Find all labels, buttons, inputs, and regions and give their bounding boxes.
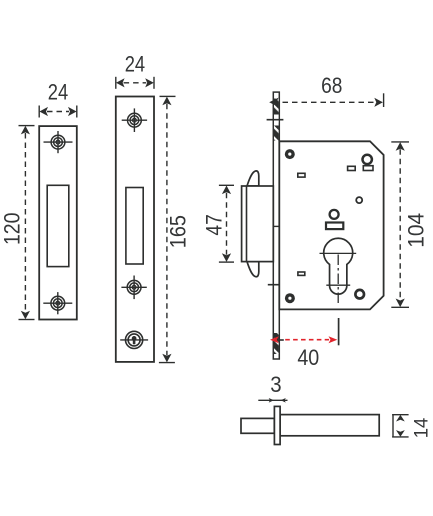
faceplate cylinder hole <box>120 331 148 348</box>
side faceplate <box>274 406 280 444</box>
case center rect <box>326 223 343 230</box>
faceplate slot <box>126 188 143 265</box>
case small circle <box>356 197 362 203</box>
svg-text:104: 104 <box>403 213 428 248</box>
case rect left of ring <box>348 166 356 170</box>
svg-text:68: 68 <box>321 73 342 98</box>
strike plate top screw hole <box>44 131 73 153</box>
case top-left screw <box>285 149 295 159</box>
extension line cylinder center <box>338 318 340 345</box>
strike plate bottom screw hole <box>43 292 72 314</box>
svg-text:47: 47 <box>201 214 226 235</box>
svg-text:3: 3 <box>270 372 281 397</box>
dimension 24 (strike plate width) <box>39 106 77 118</box>
dimension 165 (faceplate height) <box>159 96 176 362</box>
faceplate outline <box>116 97 154 362</box>
latch bolt top ear <box>247 171 259 186</box>
strip small tick <box>273 225 280 227</box>
case rect below ring <box>363 166 373 171</box>
svg-text:24: 24 <box>125 52 145 77</box>
strip hatch gap at screw <box>274 115 279 126</box>
side body <box>280 415 379 436</box>
case small rect bottom-left <box>298 272 305 275</box>
case top-right ring <box>363 155 372 164</box>
strike plate slot <box>47 185 69 266</box>
euro cylinder profile <box>324 238 353 294</box>
cylinder vertical centerline <box>337 255 339 304</box>
cylinder horizontal centerline <box>320 252 357 254</box>
latch bolt front face line <box>246 186 248 262</box>
case center ring <box>330 210 339 219</box>
svg-text:24: 24 <box>48 79 68 104</box>
lock case outline <box>279 141 383 309</box>
svg-text:165: 165 <box>165 215 190 248</box>
latch bolt bottom ear <box>247 262 259 277</box>
dimension 24 (faceplate width) <box>116 77 154 89</box>
strip cylinder tick <box>279 339 284 341</box>
dimension 40 (backset, red) <box>270 336 337 343</box>
case bottom-left screw <box>285 293 295 303</box>
svg-text:40: 40 <box>297 345 319 370</box>
strip screw tick bottom <box>268 284 285 286</box>
case edge tick <box>279 285 285 287</box>
dimension 3 (faceplate thickness) <box>258 398 287 403</box>
dimension 68 (case width) <box>269 93 383 107</box>
lock faceplate strip <box>273 92 279 359</box>
svg-text:14: 14 <box>411 417 432 438</box>
case small rect mid-left <box>298 173 305 177</box>
strip hatch top <box>274 99 279 141</box>
case bottom-right ring <box>355 290 364 299</box>
strike plate outline <box>39 126 77 319</box>
dimension 47 (latch height) <box>219 185 234 262</box>
dimension 14 (body thickness) <box>392 415 409 437</box>
dimension 104 (case height) <box>391 142 409 307</box>
cylinder slot tick <box>326 284 350 286</box>
dimension 120 (strike plate height) <box>19 126 35 320</box>
latch bolt body <box>242 186 274 262</box>
strip hatch bottom <box>274 333 279 354</box>
faceplate top screw hole <box>122 108 147 132</box>
strip screw tick top <box>267 119 284 121</box>
svg-text:120: 120 <box>0 213 25 246</box>
side bolt <box>241 418 274 433</box>
faceplate middle screw hole <box>121 276 146 300</box>
